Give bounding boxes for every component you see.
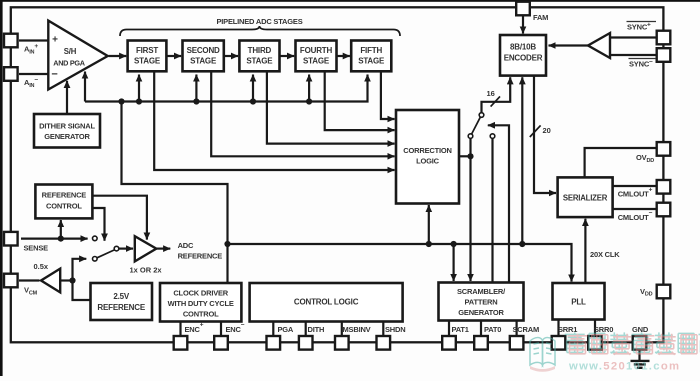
svg-text:STAGE: STAGE — [134, 57, 161, 66]
svg-text:SCRAMBLER/: SCRAMBLER/ — [457, 287, 506, 296]
svg-text:8B/10B: 8B/10B — [510, 43, 536, 52]
svg-text:REFERENCE: REFERENCE — [42, 191, 87, 200]
svg-text:STAGE: STAGE — [190, 57, 217, 66]
svg-text:CONTROL LOGIC: CONTROL LOGIC — [294, 298, 359, 307]
svg-text:PIPELINED ADC STAGES: PIPELINED ADC STAGES — [216, 17, 302, 26]
svg-text:S/H: S/H — [64, 47, 77, 56]
svg-text:FIFTH: FIFTH — [360, 46, 382, 55]
svg-text:20: 20 — [543, 126, 551, 135]
svg-text:STAGE: STAGE — [358, 57, 385, 66]
svg-text:−: − — [51, 69, 57, 81]
svg-text:LOGIC: LOGIC — [416, 157, 440, 166]
svg-text:16: 16 — [487, 89, 495, 98]
svg-text:CLOCK DRIVER: CLOCK DRIVER — [173, 288, 228, 297]
svg-text:PAT1: PAT1 — [452, 325, 469, 334]
svg-text:FOURTH: FOURTH — [300, 46, 333, 55]
svg-text:CONTROL: CONTROL — [46, 201, 82, 210]
svg-text:STAGE: STAGE — [303, 57, 330, 66]
svg-text:20X CLK: 20X CLK — [590, 250, 620, 259]
svg-text:ENCODER: ENCODER — [504, 54, 543, 63]
svg-text:GENERATOR: GENERATOR — [44, 132, 90, 141]
svg-text:MSBINV: MSBINV — [343, 325, 371, 334]
svg-text:FAM: FAM — [533, 13, 548, 22]
svg-text:SHDN: SHDN — [385, 325, 405, 334]
svg-text:PGA: PGA — [278, 325, 294, 334]
svg-text:REFERENCE: REFERENCE — [97, 303, 145, 312]
svg-text:www.520101.com: www.520101.com — [568, 361, 680, 373]
svg-text:DITHER SIGNAL: DITHER SIGNAL — [39, 121, 95, 130]
svg-text:AND PGA: AND PGA — [53, 59, 86, 68]
svg-text:DITH: DITH — [308, 325, 325, 334]
svg-text:+: + — [52, 35, 58, 46]
svg-text:PLL: PLL — [571, 298, 586, 307]
svg-text:SECOND: SECOND — [187, 46, 220, 55]
svg-text:SRR0: SRR0 — [594, 325, 613, 334]
svg-text:GND: GND — [632, 325, 649, 334]
svg-text:STAGE: STAGE — [246, 57, 273, 66]
svg-text:CONTROL: CONTROL — [183, 309, 219, 318]
svg-text:1x OR 2x: 1x OR 2x — [130, 266, 163, 275]
svg-text:2.5V: 2.5V — [113, 292, 130, 301]
svg-text:REFERENCE: REFERENCE — [178, 252, 223, 261]
svg-text:THIRD: THIRD — [248, 46, 272, 55]
svg-text:PAT0: PAT0 — [484, 325, 501, 334]
svg-text:ADC: ADC — [178, 241, 194, 250]
svg-text:SERIALIZER: SERIALIZER — [563, 193, 608, 202]
svg-text:GENERATOR: GENERATOR — [458, 308, 504, 317]
svg-text:PATTERN: PATTERN — [465, 297, 498, 306]
svg-text:FIRST: FIRST — [136, 46, 158, 55]
svg-text:0.5x: 0.5x — [34, 262, 49, 271]
svg-text:SENSE: SENSE — [24, 244, 49, 253]
svg-text:CORRECTION: CORRECTION — [403, 146, 451, 155]
svg-text:WITH DUTY CYCLE: WITH DUTY CYCLE — [168, 299, 234, 308]
svg-text:SCRAM: SCRAM — [513, 325, 540, 334]
